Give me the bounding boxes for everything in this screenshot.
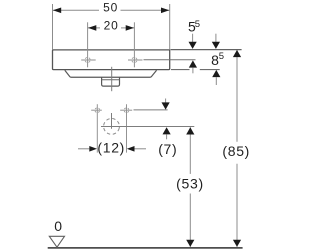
dim 50 arrow right xyxy=(161,8,169,14)
dim (12) arrow left xyxy=(78,148,89,150)
dim 5.5 up arrow xyxy=(189,60,197,67)
dim 5.5 down arrow xyxy=(192,34,194,42)
tap axis extension line xyxy=(144,59,196,61)
dim (85) line xyxy=(236,50,238,142)
dim 50 arrow left xyxy=(53,8,61,14)
dim (53) down arrow xyxy=(186,240,194,247)
datum triangle xyxy=(49,236,64,247)
dim 50 line xyxy=(53,9,100,11)
dim (12) arrow right xyxy=(127,146,135,152)
dim (53) up arrow xyxy=(186,127,194,134)
dim 20 line xyxy=(88,27,100,29)
svg-text:(85): (85) xyxy=(222,143,250,159)
svg-text:50: 50 xyxy=(103,1,118,15)
drain centerline (front view) xyxy=(111,67,113,91)
drain axis line xyxy=(101,126,194,128)
dim 8.5 up arrow xyxy=(212,70,220,77)
svg-text:(7): (7) xyxy=(158,141,177,157)
washbasin rim (front view) xyxy=(53,50,170,70)
drain centerline vertical xyxy=(111,113,113,129)
svg-text:(53): (53) xyxy=(176,176,204,192)
dim (85) up arrow xyxy=(233,50,241,57)
svg-text:5: 5 xyxy=(195,19,200,30)
svg-text:5: 5 xyxy=(219,51,224,62)
supply crosshair left (plan) xyxy=(96,104,98,152)
washbasin bowl (front view) xyxy=(65,70,157,77)
dim 50 extension right xyxy=(169,4,171,50)
svg-text:0: 0 xyxy=(54,218,62,234)
floor line xyxy=(48,247,243,249)
dim (7) up arrow xyxy=(163,127,171,134)
dim 20 arrow left xyxy=(88,25,96,31)
rim top extension line xyxy=(170,49,241,51)
tap hole right crosshair xyxy=(133,22,135,67)
dim (85) down arrow xyxy=(233,240,241,247)
svg-text:(12): (12) xyxy=(97,140,125,156)
drain circle (plan, dashed) xyxy=(102,117,121,136)
dim 8.5 down arrow xyxy=(215,34,217,42)
drain fitting (front view) xyxy=(102,77,120,86)
dim (7) down arrow xyxy=(165,99,167,104)
tap hole left crosshair xyxy=(87,22,89,67)
svg-text:20: 20 xyxy=(104,18,119,32)
dim (53) line xyxy=(189,127,191,174)
supply axis extension xyxy=(134,109,168,111)
rim bottom extension line xyxy=(171,69,190,71)
dim 50 extension left xyxy=(52,4,54,50)
supply crosshair right (plan) xyxy=(126,104,128,152)
dim 20 arrow right xyxy=(126,25,134,31)
